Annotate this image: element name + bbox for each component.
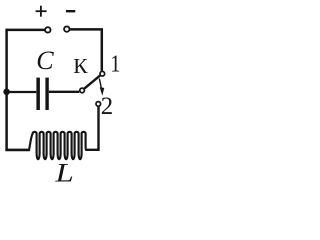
wire from junction to capacitor: [7, 91, 37, 93]
wire top-left from + terminal to left rail: [7, 29, 45, 32]
label - (negative terminal): [66, 10, 75, 12]
wire from contact 2 down and left to inductor: [85, 106, 98, 149]
svg-text:2: 2: [101, 93, 113, 120]
node junction dot on left rail: [3, 89, 10, 96]
svg-text:C: C: [36, 46, 54, 75]
inductor L coil: [29, 132, 87, 159]
wire from capacitor to switch pivot: [49, 91, 80, 93]
svg-text:L: L: [54, 158, 74, 188]
wire top-right from - terminal down to switch contact 1: [70, 29, 102, 71]
terminal circle +: [45, 27, 50, 32]
switch contact 1 circle: [100, 71, 105, 76]
arrow showing switch throw from 1 to 2: [99, 79, 104, 96]
terminal circle -: [64, 26, 69, 31]
switch contact 2 circle: [96, 102, 101, 107]
svg-text:1: 1: [110, 50, 120, 77]
switch K pivot contact circle: [80, 88, 85, 93]
svg-text:К: К: [73, 54, 88, 78]
label + (positive terminal): [36, 6, 47, 17]
wire left rail down to bottom: [5, 29, 8, 151]
switch K arm (thrown to contact 1): [84, 75, 101, 89]
wire bottom-left rail to inductor: [5, 149, 29, 152]
capacitor C plates: [36, 78, 48, 110]
